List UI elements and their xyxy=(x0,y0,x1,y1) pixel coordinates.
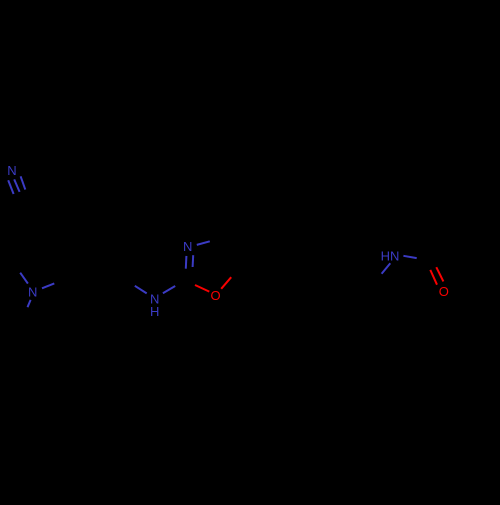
bond C2-O1 half-stub going up-left from O (O-colored) xyxy=(195,285,209,292)
svg-text:N: N xyxy=(7,163,16,178)
svg-text:O: O xyxy=(439,284,449,299)
triple bond C#N stroke 1 (lower-left parallel line, N-colored half) xyxy=(8,180,13,194)
bond N3-C4 half-stub going up-right from oxazole N xyxy=(197,241,210,245)
double bond N3=C2 line 1 (left, N-colored half) xyxy=(185,256,188,269)
bond N1-C7a half-stub going up-left from N1 xyxy=(20,273,28,284)
svg-text:N: N xyxy=(183,239,192,254)
bond N-CH2 half-stub going down-left from amide N xyxy=(382,263,391,274)
svg-text:H: H xyxy=(150,304,159,319)
svg-text:N: N xyxy=(28,285,37,300)
svg-text:HN: HN xyxy=(381,248,400,263)
bond NH-C2(oxazole) half-stub going up-right from NH xyxy=(163,286,175,293)
bond NH-aryl half-stub going up-left from NH xyxy=(135,286,147,294)
double bond C=O line 2 (right, carbonyl) xyxy=(436,267,443,281)
triple bond C#N stroke 2 (central line, N-colored half) xyxy=(14,179,19,192)
svg-text:O: O xyxy=(210,288,220,303)
bond N1-C2 half-stub going right from N1 xyxy=(42,283,54,288)
bond N1-CH3 half-stub going down-left from N1 (N-methyl) xyxy=(28,300,31,307)
triple bond C#N stroke 3 (upper-right parallel line, N-colored half) xyxy=(21,176,26,189)
double bond C=O line 1 (left, carbonyl) xyxy=(430,270,437,285)
double bond N3=C2 line 2 (right, N-colored half) xyxy=(192,255,195,267)
bond N-C(=O) half-stub going right from amide N xyxy=(403,256,416,258)
bond O1-C5 half-stub going up-right from O (O-colored) xyxy=(221,277,231,289)
